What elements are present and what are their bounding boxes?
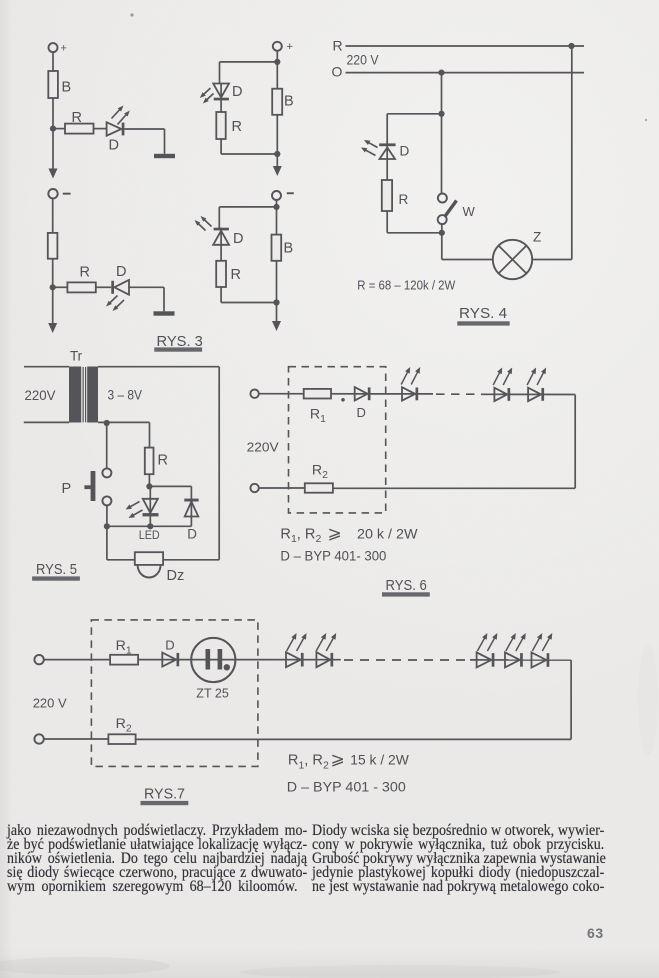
svg-text:+: + <box>61 43 67 55</box>
svg-text:220 V: 220 V <box>33 696 67 711</box>
svg-text:D: D <box>109 138 119 154</box>
svg-text:D: D <box>400 144 410 159</box>
svg-text:B: B <box>284 241 294 257</box>
svg-text:D: D <box>116 264 126 280</box>
svg-text:Dz: Dz <box>167 568 185 584</box>
svg-text:D: D <box>165 638 174 653</box>
svg-text:3 – 8V: 3 – 8V <box>108 387 143 403</box>
svg-text:R: R <box>80 265 90 281</box>
svg-text:⩾: ⩾ <box>328 524 342 543</box>
svg-text:R: R <box>158 453 168 469</box>
svg-text:+: + <box>287 41 293 53</box>
svg-text:R1, R2: R1, R2 <box>288 753 329 772</box>
svg-text:D: D <box>233 231 243 247</box>
svg-text:R1, R2: R1, R2 <box>280 527 321 546</box>
svg-text:R: R <box>232 119 242 135</box>
svg-text:⩾: ⩾ <box>331 750 345 769</box>
svg-text:R: R <box>399 192 409 207</box>
svg-text:15 k / 2W: 15 k / 2W <box>350 752 409 768</box>
svg-text:Z: Z <box>533 229 541 244</box>
svg-text:D: D <box>187 527 197 542</box>
svg-text:220V: 220V <box>247 439 279 454</box>
svg-text:220 V: 220 V <box>347 52 379 67</box>
svg-text:RYS. 4: RYS. 4 <box>459 306 507 322</box>
svg-text:D – BYP 401 - 300: D – BYP 401 - 300 <box>287 779 406 794</box>
svg-text:RYS. 6: RYS. 6 <box>386 578 427 594</box>
svg-text:B: B <box>62 80 72 96</box>
svg-text:R: R <box>333 38 343 54</box>
svg-text:ZT 25: ZT 25 <box>196 687 229 701</box>
svg-text:O: O <box>332 64 343 80</box>
svg-text:RYS. 5: RYS. 5 <box>36 562 77 578</box>
svg-text:Tr: Tr <box>70 349 83 364</box>
svg-text:RYS.7: RYS.7 <box>144 786 185 802</box>
svg-text:R: R <box>231 267 241 283</box>
svg-text:D: D <box>232 84 242 100</box>
svg-text:P: P <box>62 481 72 497</box>
svg-text:220V: 220V <box>25 387 57 403</box>
svg-text:20 k / 2W: 20 k / 2W <box>357 526 418 542</box>
svg-text:R = 68 – 120k / 2W: R = 68 – 120k / 2W <box>357 279 455 293</box>
svg-text:W: W <box>463 204 476 219</box>
svg-text:D – BYP 401- 300: D – BYP 401- 300 <box>280 549 386 564</box>
svg-text:B: B <box>284 94 294 110</box>
svg-text:LED: LED <box>139 528 160 542</box>
svg-text:D: D <box>357 405 366 420</box>
